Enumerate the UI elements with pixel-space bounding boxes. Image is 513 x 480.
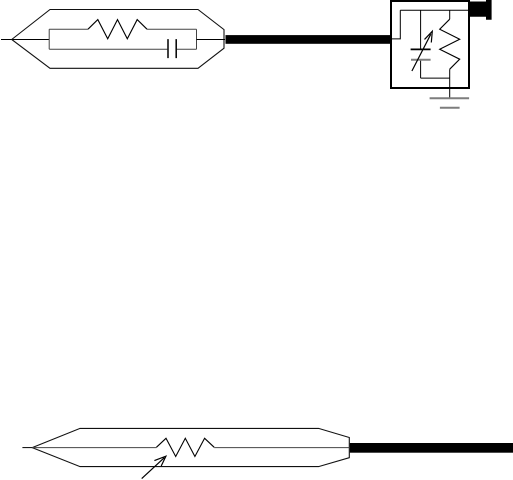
- wire inner top rail: [400, 9, 468, 11]
- wire top rail segments: [49, 28, 196, 30]
- wire inner bottom rail: [421, 77, 450, 79]
- wire tip to resistor: [32, 447, 156, 449]
- BNC connector (top right): [470, 0, 492, 20]
- coaxial cable (top, thick): [226, 35, 391, 44]
- wire to variable capacitor: [420, 10, 422, 49]
- capacitor C1 (compensation capacitor plates): [168, 39, 176, 58]
- wire tip to compensation network: [12, 39, 50, 41]
- annotation arrow pointing at resistor: [142, 456, 166, 478]
- probe body P1 (hexagonal shell): [12, 10, 224, 69]
- resistor R1 (probe tip resistor): [88, 20, 147, 39]
- ground symbol: [430, 97, 470, 99]
- variable capacitor C2 adjust arrow: [412, 31, 432, 71]
- probe body P2 (hexagonal shell): [32, 428, 349, 466]
- wire to ground: [449, 78, 451, 98]
- wire bottom rail segments: [49, 48, 196, 50]
- resistor R3 (resistive probe element): [156, 438, 214, 456]
- node rail right (network loop right edge): [196, 29, 198, 49]
- node rail left (network loop left edge): [48, 29, 50, 49]
- resistor R2 (scope input resistance): [440, 19, 460, 69]
- wire probe-tip stub (bottom probe): [22, 447, 32, 449]
- wire resistor to cable: [214, 447, 349, 449]
- wire cable entry jog: [392, 10, 400, 39]
- oscilloscope input box U1: [391, 1, 469, 88]
- wire to input resistor: [449, 10, 451, 19]
- wire network to cable: [197, 39, 226, 41]
- wire below variable capacitor: [420, 61, 422, 78]
- variable capacitor C2 bottom plate: [411, 59, 431, 61]
- wire below resistor R2: [449, 69, 451, 78]
- coaxial cable (bottom, thick): [350, 443, 513, 453]
- wire probe-tip stub (top probe): [1, 39, 12, 41]
- variable capacitor C2 top plate: [411, 48, 431, 50]
